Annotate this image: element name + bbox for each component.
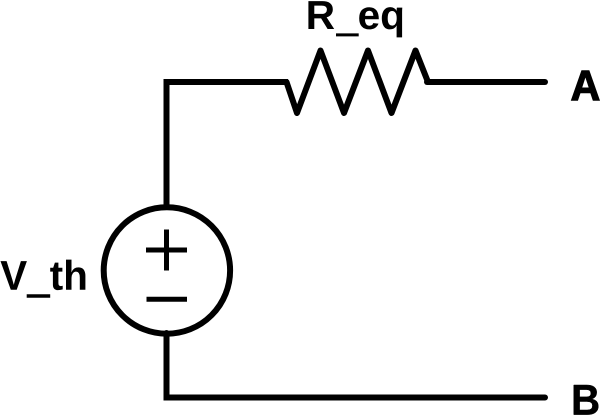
wire: V_th negative terminal down and across to terminal B [167,333,546,398]
node B (terminal label) [574,385,599,415]
voltage source V_th (circle body) [104,207,230,333]
node A (terminal label) [572,71,600,100]
wire: V_th positive terminal up and across to resistor R_eq [167,82,289,209]
resistor R_eq (zigzag body) [287,51,429,114]
voltage source V_th plus sign [146,230,187,271]
wire: resistor R_eq to terminal A [427,79,545,85]
label R_eq (resistor name) [308,1,402,37]
voltage source V_th minus sign [147,297,188,302]
label V_th (source name) [1,260,86,298]
